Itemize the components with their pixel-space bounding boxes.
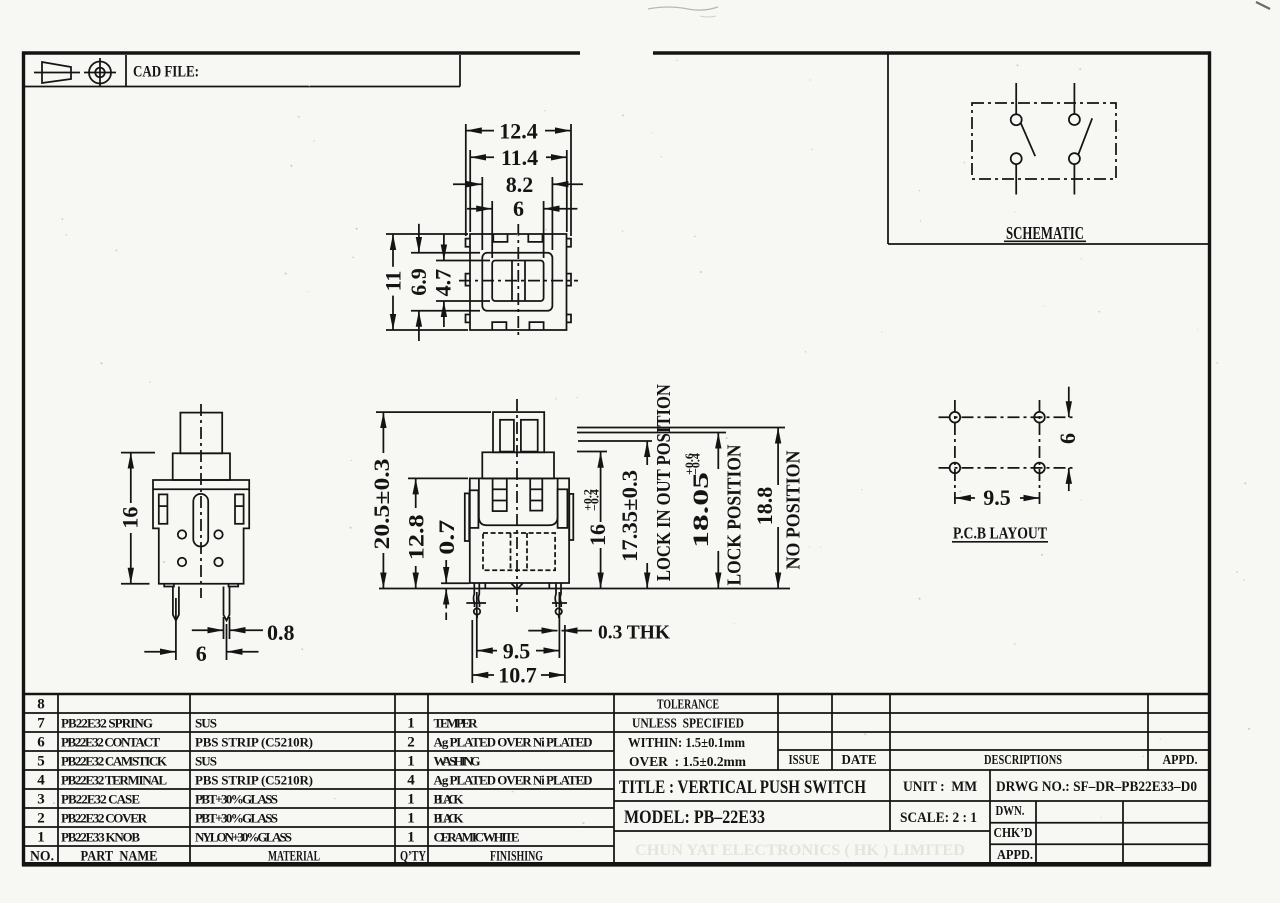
svg-text:2: 2 — [37, 811, 45, 827]
svg-text:5: 5 — [37, 754, 45, 770]
svg-text:TITLE : VERTICAL PUSH SWITCH: TITLE : VERTICAL PUSH SWITCH — [619, 777, 866, 798]
top view collar (8.2 rounded rect) — [482, 253, 552, 311]
svg-text:CHUN YAT ELECTRONICS ( HK ) LI: CHUN YAT ELECTRONICS ( HK ) LIMITED — [635, 842, 965, 859]
svg-text:ISSUE: ISSUE — [789, 753, 820, 768]
svg-text:NYLON+30%GLASS: NYLON+30%GLASS — [195, 830, 292, 845]
svg-text:Q’TY: Q’TY — [400, 849, 426, 865]
svg-text:4: 4 — [37, 773, 45, 789]
front view feet — [164, 584, 174, 587]
side view center line — [516, 399, 518, 612]
svg-text:PB22E32 CASE: PB22E32 CASE — [61, 792, 140, 807]
table column lines — [57, 694, 59, 865]
svg-text:6: 6 — [37, 735, 45, 751]
svg-text:PBS STRIP (C5210R): PBS STRIP (C5210R) — [195, 735, 313, 750]
svg-text:NO POSITION: NO POSITION — [783, 450, 805, 569]
svg-text:6: 6 — [513, 196, 524, 221]
dimension 11 — [392, 234, 394, 267]
table outer top — [24, 693, 1209, 695]
svg-text:APPD.: APPD. — [1163, 753, 1198, 768]
svg-text:1: 1 — [37, 830, 45, 846]
svg-text:PB22E32 CAMSTICK: PB22E32 CAMSTICK — [61, 754, 168, 769]
schematic switch arms — [1021, 123, 1035, 156]
svg-text:PB22E33 KNOB: PB22E33 KNOB — [61, 830, 140, 845]
schematic terminal stubs — [1015, 83, 1017, 114]
dimension 11.4 — [470, 156, 494, 158]
svg-text:SCHEMATIC: SCHEMATIC — [1006, 223, 1084, 243]
dimension 16 +0.2-0.4 — [600, 452, 602, 522]
svg-text:9.5: 9.5 — [983, 485, 1011, 510]
side view cavity — [479, 478, 558, 525]
svg-text:OVER : 1.5±0.2mm: OVER : 1.5±0.2mm — [629, 755, 746, 770]
svg-text:CAD FILE:: CAD FILE: — [133, 64, 199, 81]
svg-text:6.9: 6.9 — [406, 268, 431, 296]
svg-text:1: 1 — [407, 754, 415, 770]
svg-text:SUS: SUS — [195, 716, 217, 731]
side view left dims — [376, 412, 491, 620]
pcb dim 9.5 — [955, 497, 975, 499]
side view lower window (dashed) — [483, 533, 555, 570]
svg-text:7: 7 — [37, 716, 45, 732]
front view dim 0.8 — [192, 617, 263, 639]
svg-text:2: 2 — [407, 735, 415, 751]
svg-text:20.5±0.3: 20.5±0.3 — [369, 459, 394, 550]
svg-text:PB22E32 COVER: PB22E32 COVER — [61, 811, 148, 826]
svg-text:11.4: 11.4 — [501, 145, 538, 170]
svg-text:MATERIAL: MATERIAL — [268, 849, 320, 865]
svg-text:MODEL: PB–22E33: MODEL: PB–22E33 — [624, 807, 765, 828]
side view collar — [482, 452, 554, 478]
front view body — [153, 480, 249, 584]
pcb dim 6 — [1068, 387, 1070, 418]
svg-text:0.3 THK: 0.3 THK — [598, 622, 670, 644]
svg-text:4.7: 4.7 — [430, 269, 455, 297]
svg-text:PB22E32 SPRING: PB22E32 SPRING — [61, 716, 153, 731]
ext lines fan — [577, 427, 785, 429]
svg-text:PBS STRIP (C5210R): PBS STRIP (C5210R) — [195, 773, 313, 788]
pin center ext lines — [476, 592, 478, 658]
dimension 6.9 — [418, 224, 420, 253]
svg-text:8: 8 — [37, 697, 45, 713]
svg-text:PB22E32 CONTACT: PB22E32 CONTACT — [61, 735, 160, 750]
svg-text:3: 3 — [37, 792, 45, 808]
svg-text:APPD.: APPD. — [997, 848, 1033, 863]
side view knob — [493, 412, 544, 452]
third-angle projection symbol (circle view) — [89, 62, 111, 84]
svg-text:6: 6 — [1055, 433, 1080, 444]
side view bottom notches — [485, 583, 549, 589]
svg-text:TOLERANCE: TOLERANCE — [657, 698, 719, 713]
seating baseline — [379, 588, 790, 590]
svg-text:DATE: DATE — [842, 753, 877, 768]
svg-text:PBT+30%GLASS: PBT+30%GLASS — [195, 811, 278, 826]
front view center line — [200, 404, 202, 598]
side view right dim stack — [577, 428, 785, 589]
side view knob slots — [500, 420, 514, 452]
schematic contact circles — [1011, 114, 1022, 125]
svg-text:Ag PLATED OVER Ni PLATED: Ag PLATED OVER Ni PLATED — [434, 735, 593, 750]
svg-text:8.2: 8.2 — [506, 172, 534, 197]
svg-text:CHK’D: CHK’D — [994, 826, 1033, 841]
svg-text:UNIT : MM: UNIT : MM — [903, 779, 977, 795]
dimension 17.35±0.3 — [646, 441, 648, 465]
svg-text:PBT+30%GLASS: PBT+30%GLASS — [195, 792, 278, 807]
dimension 18.05 +0.6-0.4 — [717, 433, 719, 470]
title block lines — [777, 694, 779, 770]
svg-text:FINISHING: FINISHING — [490, 849, 543, 865]
pcb centerlines — [939, 416, 1076, 418]
svg-text:16: 16 — [585, 524, 610, 546]
dimension 6 — [467, 208, 492, 210]
front view collar — [173, 453, 230, 480]
svg-text:16: 16 — [118, 507, 143, 529]
svg-text:TEMPER: TEMPER — [434, 716, 479, 731]
svg-text:0.7: 0.7 — [434, 520, 459, 555]
svg-text:CERAMIC WHITE: CERAMIC WHITE — [434, 830, 520, 845]
svg-text:18.8: 18.8 — [752, 487, 777, 526]
CAD FILE header box — [25, 55, 460, 87]
front view dim 6 — [144, 598, 258, 660]
svg-text:1: 1 — [407, 811, 415, 827]
svg-text:WASHING: WASHING — [434, 754, 481, 769]
dimension 20.5±0.3 — [382, 412, 384, 453]
svg-text:LOCK IN OUT POSITION: LOCK IN OUT POSITION — [653, 384, 675, 581]
ext lines — [376, 411, 491, 413]
front view side slots — [159, 494, 168, 523]
front view left pin — [173, 587, 179, 621]
svg-text:PB22E32 TERMINAL: PB22E32 TERMINAL — [61, 773, 167, 788]
svg-text:LOCK POSITION: LOCK POSITION — [724, 444, 746, 585]
svg-text:6: 6 — [196, 641, 207, 666]
svg-text:BLACK: BLACK — [434, 792, 465, 807]
ext lines horizontal dims — [465, 124, 467, 236]
dimension 9.5 — [477, 650, 497, 652]
svg-text:0.8: 0.8 — [267, 620, 295, 645]
svg-text:Ag PLATED OVER Ni PLATED: Ag PLATED OVER Ni PLATED — [434, 773, 593, 788]
top view edge notches — [493, 234, 507, 242]
side view body — [470, 478, 569, 583]
svg-text:P.C.B LAYOUT: P.C.B LAYOUT — [953, 524, 1048, 543]
third-angle projection symbol (frustum) — [42, 62, 71, 83]
svg-text:18.05: 18.05 — [688, 472, 713, 548]
schematic box — [887, 54, 889, 244]
front view rivet circles — [178, 530, 186, 538]
top view body — [470, 234, 567, 330]
svg-text:SCALE: 2 : 1: SCALE: 2 : 1 — [900, 810, 977, 826]
svg-text:WITHIN: 1.5±0.1mm: WITHIN: 1.5±0.1mm — [628, 736, 745, 751]
dimension 10.7 — [472, 674, 494, 676]
top view knob (6 x 4.7) — [492, 261, 543, 302]
dimension 8.2 — [453, 183, 482, 185]
scan speckle noise — [53, 60, 1250, 824]
top view dimensions — [453, 124, 583, 258]
side view right pin — [555, 583, 556, 607]
svg-text:−0.4: −0.4 — [689, 453, 703, 475]
side view left pin — [473, 583, 474, 607]
side view ladder slots — [493, 478, 507, 511]
top view side tabs — [466, 239, 471, 247]
dimension 0.7 — [445, 560, 447, 583]
svg-text:1: 1 — [407, 830, 415, 846]
front view knob — [180, 413, 222, 454]
front view dim 16 — [121, 453, 155, 584]
svg-text:10.7: 10.7 — [498, 663, 537, 688]
front view center slot — [193, 494, 208, 547]
svg-text:17.35±0.3: 17.35±0.3 — [617, 470, 642, 562]
schematic dashed enclosure — [972, 103, 1116, 179]
dimension 4.7 — [443, 234, 445, 261]
svg-text:12.8: 12.8 — [404, 514, 429, 560]
0.3 THK crossing — [528, 630, 557, 632]
svg-text:BLACK: BLACK — [434, 811, 465, 826]
svg-text:1: 1 — [407, 716, 415, 732]
svg-text:DWN.: DWN. — [996, 804, 1025, 819]
svg-text:1: 1 — [407, 792, 415, 808]
svg-text:12.4: 12.4 — [499, 119, 538, 144]
svg-text:PART NAME: PART NAME — [81, 849, 158, 865]
svg-text:UNLESS SPECIFIED: UNLESS SPECIFIED — [632, 717, 744, 732]
ext lines — [386, 233, 468, 235]
svg-text:DRWG NO.: SF–DR–PB22E33–D0: DRWG NO.: SF–DR–PB22E33–D0 — [996, 779, 1197, 795]
side view clips — [470, 490, 479, 528]
svg-text:11: 11 — [380, 271, 405, 292]
table row lines — [24, 712, 1209, 714]
pcb pads — [950, 412, 961, 423]
svg-text:DESCRIPTIONS: DESCRIPTIONS — [984, 753, 1062, 768]
dimension 18.8 — [777, 428, 779, 486]
dimension 12.4 — [466, 130, 494, 132]
svg-text:NO.: NO. — [30, 849, 54, 865]
front view right pin — [224, 587, 230, 621]
svg-text:4: 4 — [407, 773, 415, 789]
svg-text:9.5: 9.5 — [503, 639, 531, 664]
svg-text:−0.4: −0.4 — [587, 489, 601, 511]
top view centerlines — [517, 224, 519, 338]
dimension 12.8 — [415, 478, 417, 508]
top view vertical dims 11 / 6.9 / 4.7 — [386, 224, 490, 341]
svg-text:SUS: SUS — [195, 754, 217, 769]
scan specks top edge — [648, 7, 718, 10]
side view bottom dims — [466, 592, 592, 683]
